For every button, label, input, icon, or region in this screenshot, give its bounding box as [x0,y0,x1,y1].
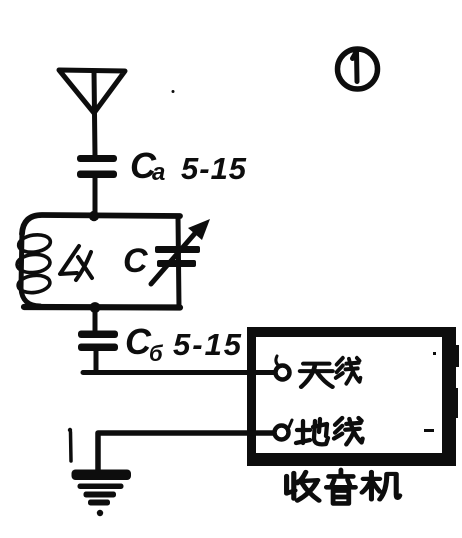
label 收音机 [287,470,400,503]
机 [362,472,400,499]
天 [300,364,332,387]
svg-text:5-15: 5-15 [173,327,243,362]
speck [172,90,175,93]
label Lx [60,246,92,280]
线 [336,358,361,384]
antenna [59,70,125,113]
wire junction to Cb [93,308,98,332]
terminal ground (dixian) [275,420,293,440]
线 [334,418,363,444]
capacitor Cb [78,331,118,352]
svg-text:C: C [125,321,152,362]
variable capacitor C [151,219,210,284]
label 地线 [296,418,363,444]
wire tank loop left edge [21,232,40,306]
ground [72,470,132,517]
label 天线 [300,358,360,387]
wire tank loop bottom [24,304,180,311]
node junction top [89,211,99,221]
figure number 1 [338,49,378,89]
stray mark [69,432,73,461]
value label Cb 5-15 [125,321,243,366]
wire antenna terminal lead [256,370,276,375]
音 [326,470,355,503]
wire Cb to antenna terminal [83,351,274,373]
node junction bottom [90,302,101,313]
wire antenna mast [94,71,95,156]
receiver box [247,327,459,466]
svg-text:a: a [152,159,165,186]
地 [296,419,328,444]
svg-text:5-15: 5-15 [181,151,247,186]
svg-text:C: C [123,242,148,280]
inductor Lx [16,233,51,295]
capacitor Ca [77,155,117,178]
wire Ca to tank top [93,178,98,216]
wire tank loop right edge [178,216,179,308]
wire ground terminal to ground [98,433,273,471]
wire tank loop top [22,215,180,234]
收 [287,472,319,501]
svg-text:б: б [149,341,164,366]
value label Ca 5-15 [130,145,247,186]
terminal antenna (tianxian) [276,356,290,380]
